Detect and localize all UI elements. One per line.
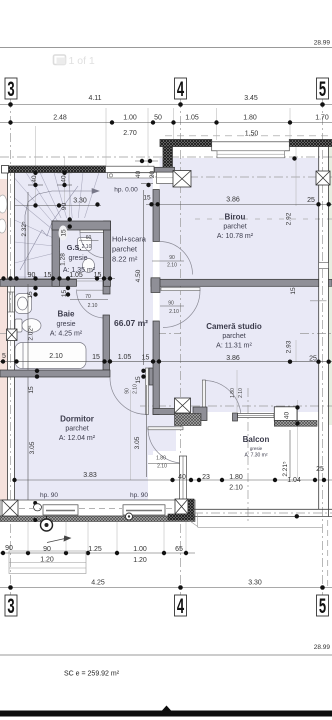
svg-text:parchet: parchet [112, 245, 138, 254]
toilet G.S. [83, 259, 95, 273]
svg-text:1.50: 1.50 [245, 131, 259, 138]
horizontal dashes camera studio right [300, 333, 332, 335]
dim line 70 baie [70, 299, 108, 301]
svg-text:1.80: 1.80 [229, 474, 243, 481]
svg-text:40: 40 [61, 175, 68, 183]
extension line 25 dim camstudio [295, 340, 297, 362]
svg-text:2.10: 2.10 [169, 309, 179, 315]
svg-text:2.10: 2.10 [167, 263, 177, 269]
upper wall axis dashes [165, 135, 332, 137]
svg-text:3.45: 3.45 [244, 95, 258, 102]
svg-text:2.21⁵: 2.21⁵ [282, 461, 289, 477]
svg-text:90: 90 [169, 255, 175, 261]
dim line 60 gs [79, 240, 99, 242]
room fill south hall sliver [153, 412, 176, 451]
horizontal dashes baie [0, 333, 12, 335]
door arc baie [77, 290, 106, 319]
svg-text:1.04: 1.04 [287, 477, 301, 484]
svg-text:40: 40 [31, 175, 38, 183]
svg-text:3: 3 [7, 594, 14, 618]
svg-text:60: 60 [86, 235, 92, 241]
svg-text:Hol+scara: Hol+scara [112, 235, 147, 244]
baie-dormitor wall [0, 370, 110, 377]
svg-text:3.30: 3.30 [248, 580, 262, 587]
svg-text:gresie: gresie [250, 446, 263, 451]
svg-text:90: 90 [43, 546, 51, 553]
svg-text:3.83: 3.83 [83, 472, 97, 479]
extension line window right edge [147, 108, 149, 166]
svg-text:90: 90 [61, 203, 68, 211]
window dormitor south 2 [123, 505, 165, 515]
sink baie [15, 294, 32, 314]
window2 symbol [126, 513, 133, 520]
door leaf G.S. [80, 229, 106, 233]
svg-text:hp. 90: hp. 90 [40, 492, 58, 499]
svg-text:5: 5 [319, 77, 326, 101]
top-left wall end cap [2, 166, 9, 174]
dim vertical 2.32 [27, 192, 29, 275]
grid bubble 5 bottom [317, 594, 329, 618]
balcony axis vertical [247, 388, 249, 524]
svg-text:40: 40 [135, 171, 142, 179]
svg-text:25: 25 [316, 466, 324, 473]
horizontal axis left section [0, 156, 332, 158]
svg-text:1.80: 1.80 [230, 388, 236, 398]
svg-text:Cameră studio: Cameră studio [206, 322, 262, 331]
svg-text:1.80: 1.80 [243, 115, 257, 122]
svg-text:3.30: 3.30 [73, 198, 87, 205]
hol south wall vertical [153, 321, 159, 415]
watermark 1 of 1 [54, 55, 95, 67]
svg-text:parchet: parchet [223, 224, 246, 231]
grid bubble 3 top [5, 77, 17, 101]
dim line birou 3.86 [146, 204, 332, 206]
svg-text:2.02⁵: 2.02⁵ [28, 325, 35, 341]
parapet fixture oval [34, 504, 42, 511]
svg-text:15: 15 [61, 229, 68, 237]
main interior wall jamb hol [151, 278, 160, 293]
svg-text:90: 90 [168, 301, 174, 307]
main interior wall horizontal left [0, 279, 77, 286]
svg-text:28.99: 28.99 [314, 40, 331, 47]
balcon fixed glazing camera side [238, 413, 275, 417]
right wall sill ticks [319, 263, 329, 269]
svg-text:hp. 90: hp. 90 [130, 492, 148, 499]
sink G.S. [78, 238, 92, 251]
balcon glazing dormitor side [179, 456, 186, 500]
column E pier X [175, 499, 188, 514]
extension line x173 [173, 108, 175, 140]
bottom page edge bar [0, 711, 332, 717]
column B axis5 top [316, 171, 330, 185]
G.S. left wall [52, 221, 60, 286]
grid axis 3 vertical [10, 99, 12, 596]
PLACEHOLDER-OPENINGS [0, 105, 332, 588]
dim vertical 4.50/3.05 hol [143, 190, 145, 365]
svg-text:4.11: 4.11 [88, 95, 101, 102]
door small labels [85, 235, 179, 470]
svg-text:40: 40 [284, 412, 291, 420]
svg-text:2.10: 2.10 [238, 388, 244, 398]
dim line 2 top [0, 122, 332, 124]
svg-text:parchet: parchet [65, 426, 88, 433]
window top-left sill [108, 173, 153, 178]
svg-text:Birou: Birou [225, 213, 246, 222]
top-right exterior wall hatched right part [289, 140, 332, 147]
svg-text:15: 15 [27, 291, 34, 299]
balcon step lines [189, 514, 323, 528]
parapet axis dashes [19, 508, 175, 510]
toilet baie [15, 319, 22, 332]
G.S. right wall [104, 221, 111, 286]
horizontal axis right section [155, 176, 332, 178]
balcon door jamb block [233, 413, 238, 421]
grid bubble 4 top [175, 77, 187, 101]
terrace step outline [9, 551, 86, 574]
grid axis 5 vertical [322, 99, 324, 596]
balcon wall piece left [193, 407, 207, 421]
extension line balcon door [236, 370, 238, 412]
door leaf dormitor [146, 368, 149, 415]
terrace pipe symbol [41, 519, 53, 531]
grid axis 4 vertical [180, 99, 182, 596]
svg-text:15: 15 [142, 355, 150, 362]
horizontal axis bottom right section [140, 405, 332, 407]
svg-text:2.48: 2.48 [53, 115, 67, 122]
svg-text:1.80: 1.80 [156, 456, 166, 462]
horizontal dashes birou mid [195, 218, 332, 220]
sheet top border line [0, 47, 332, 49]
svg-text:90: 90 [28, 272, 36, 279]
svg-text:5: 5 [319, 594, 326, 618]
room fill right section [160, 158, 319, 412]
dim line 3.30 stair [15, 205, 102, 207]
window dormitor south 1 [43, 505, 78, 515]
svg-text:3.86: 3.86 [226, 355, 240, 362]
window top-right sill [217, 151, 285, 158]
bottom tick [162, 706, 171, 711]
top-right exterior wall hatched left part [160, 140, 212, 147]
svg-text:1.05: 1.05 [118, 354, 132, 361]
svg-text:3.05: 3.05 [29, 441, 36, 454]
svg-text:90: 90 [125, 388, 131, 394]
dimension texts horizontal [2, 95, 329, 587]
dim line bottom row [0, 552, 195, 554]
svg-text:4.50: 4.50 [135, 269, 142, 282]
svg-text:23: 23 [202, 474, 210, 481]
window top-left frame [106, 166, 155, 172]
dim vertical 3.05 left [27, 377, 29, 500]
hol-birou wall [153, 190, 159, 242]
dim line axes top [0, 104, 332, 106]
dim line dormitor 3.83 [14, 479, 332, 481]
svg-text:50: 50 [154, 115, 162, 122]
room fill left section [15, 173, 154, 501]
top-left exterior wall hatched [8, 166, 106, 173]
svg-text:25: 25 [309, 356, 317, 363]
sheet bottom border line [0, 654, 332, 656]
right exterior wall [319, 147, 329, 517]
terrace slope arrow [47, 536, 71, 543]
dim ticks 40 top left [28, 172, 43, 174]
neighbour pink strip [0, 179, 8, 500]
dim line 1.80 dorm-balcon [148, 463, 180, 465]
svg-text:hp. 0.00: hp. 0.00 [114, 187, 138, 194]
grid bubble 3 bottom [5, 594, 17, 618]
G.S. top wall left part [52, 221, 111, 230]
dim line bottom axes [0, 587, 332, 589]
svg-text:90: 90 [5, 545, 13, 552]
G.S. wall 15 label patch [59, 226, 68, 241]
column C axis4 bottom [175, 398, 191, 413]
extension line dormitor door [130, 390, 132, 480]
svg-text:65: 65 [175, 546, 183, 553]
svg-text:Balcon: Balcon [243, 435, 270, 444]
extension line window left edge [105, 108, 107, 166]
svg-text:15: 15 [92, 354, 100, 361]
svg-text:15: 15 [290, 287, 297, 295]
step wall vertical hatched [163, 147, 172, 168]
garden green strip [329, 147, 332, 425]
baie right wall [103, 315, 110, 370]
svg-text:2.10: 2.10 [49, 353, 63, 360]
door arc birou [160, 242, 193, 275]
extension lines bottom dim [27, 522, 29, 556]
svg-text:1.28: 1.28 [60, 253, 67, 266]
svg-text:2.10: 2.10 [229, 485, 243, 492]
svg-text:1.00: 1.00 [123, 115, 137, 122]
svg-text:3.05: 3.05 [134, 436, 141, 449]
svg-text:15: 15 [143, 195, 151, 202]
south hatch strip [0, 516, 195, 522]
svg-text:20: 20 [149, 171, 156, 179]
extension line x36 [35, 126, 37, 206]
hp labels [40, 187, 148, 500]
svg-text:1.25: 1.25 [88, 546, 102, 553]
svg-text:1.70: 1.70 [315, 115, 329, 122]
svg-text:gresie: gresie [56, 321, 75, 328]
svg-text:A: 7.30 m²: A: 7.30 m² [244, 453, 267, 459]
door arc camera-balcon [204, 381, 241, 418]
balcon wall piece right [274, 407, 297, 421]
svg-text:4: 4 [177, 594, 184, 618]
svg-text:15: 15 [44, 272, 52, 279]
svg-text:1 of 1: 1 of 1 [69, 55, 95, 67]
svg-text:1.00: 1.00 [133, 546, 147, 553]
door leaf hol-south [161, 280, 200, 291]
wall stub beyond right wall [329, 279, 332, 286]
dim line gs row [3, 278, 115, 280]
stair line of travel arrow [25, 189, 99, 281]
svg-text:4: 4 [177, 77, 184, 101]
svg-text:2.70: 2.70 [123, 130, 137, 137]
svg-text:gresie: gresie [68, 255, 87, 262]
svg-text:25: 25 [307, 197, 315, 204]
svg-text:1.20: 1.20 [40, 557, 54, 564]
main interior wall jamb baie door [103, 278, 110, 294]
svg-text:2.92: 2.92 [286, 212, 293, 225]
column A axis4 top [173, 171, 191, 188]
svg-text:A: 1.35 m²: A: 1.35 m² [63, 267, 96, 274]
svg-text:2.10: 2.10 [133, 384, 139, 394]
door arc G.S. [80, 232, 106, 258]
south hall wall to column [153, 409, 176, 415]
grid bubble 5 top [317, 77, 329, 101]
svg-text:40: 40 [178, 474, 186, 481]
door leaf dormitor-balcon [148, 427, 183, 430]
svg-text:3: 3 [7, 77, 14, 101]
svg-text:Baie: Baie [58, 310, 75, 319]
window sill corner box [157, 172, 175, 183]
svg-text:2.32⁵: 2.32⁵ [21, 221, 28, 237]
svg-text:70: 70 [85, 294, 91, 300]
dim dots [1, 102, 331, 590]
dim vertical 2.02 [27, 284, 29, 370]
dim line 90 birou door [152, 260, 184, 262]
svg-text:28.99: 28.99 [314, 644, 331, 651]
extension line x216 [216, 108, 218, 140]
neighbour fixtures [0, 195, 7, 233]
step wall horizontal [155, 167, 175, 172]
grid bubble 4 bottom [175, 594, 187, 618]
svg-text:2.93: 2.93 [286, 340, 293, 353]
door arc dormitor [110, 378, 147, 415]
rotated dim texts [21, 171, 297, 477]
svg-text:1.05: 1.05 [185, 115, 199, 122]
svg-text:66.07 m²: 66.07 m² [114, 318, 148, 328]
left wall baie window ticks [8, 292, 15, 312]
extension line x65 [64, 157, 66, 206]
svg-text:8.22 m²: 8.22 m² [112, 255, 138, 264]
svg-text:A: 4.25 m²: A: 4.25 m² [50, 331, 83, 338]
balcon south edge [194, 509, 332, 516]
stair break line [20, 186, 78, 270]
door leaf camera-balcon [202, 380, 205, 421]
dim line dormitor top row [0, 361, 332, 363]
svg-text:Dormitor: Dormitor [60, 415, 94, 424]
svg-text:parchet: parchet [222, 333, 245, 340]
svg-text:SC e = 259.92 m²: SC e = 259.92 m² [64, 671, 120, 678]
rotated small door labels [125, 384, 245, 398]
svg-text:A: 12.04 m²: A: 12.04 m² [59, 435, 96, 442]
dormitor door jamb [149, 368, 156, 385]
svg-text:15: 15 [135, 376, 142, 384]
horizontal axis bottom edge [0, 508, 190, 510]
svg-text:2.10: 2.10 [88, 303, 98, 309]
main interior wall horizontal right [151, 279, 319, 286]
svg-text:4.25: 4.25 [91, 580, 105, 587]
extension line x290 [289, 108, 291, 140]
dormitor south parapet band [0, 500, 195, 516]
extension line 25 dim birou [295, 146, 297, 206]
svg-text:A: 11.31 m²: A: 11.31 m² [216, 343, 252, 350]
svg-text:15: 15 [61, 290, 68, 298]
bathtub baie [15, 343, 86, 369]
dim line 90 hol door [160, 305, 184, 307]
column D bottom-left [2, 500, 18, 516]
door arc dormitor-balcon [148, 428, 183, 463]
svg-text:3.86: 3.86 [226, 197, 240, 204]
left exterior wall [8, 166, 15, 516]
svg-text:1.20: 1.20 [133, 557, 147, 564]
door arc hol-south [163, 291, 200, 328]
svg-text:A: 10.78 m²: A: 10.78 m² [217, 233, 254, 240]
svg-text:15: 15 [28, 386, 35, 394]
svg-text:5: 5 [2, 353, 6, 360]
column left wall junction [7, 329, 18, 341]
window top-right frame [212, 142, 290, 151]
baie door threshold [77, 281, 103, 290]
horizontal axis mid rooms [157, 333, 181, 335]
balcon pier left [175, 499, 188, 514]
svg-text:2.10: 2.10 [157, 464, 167, 470]
